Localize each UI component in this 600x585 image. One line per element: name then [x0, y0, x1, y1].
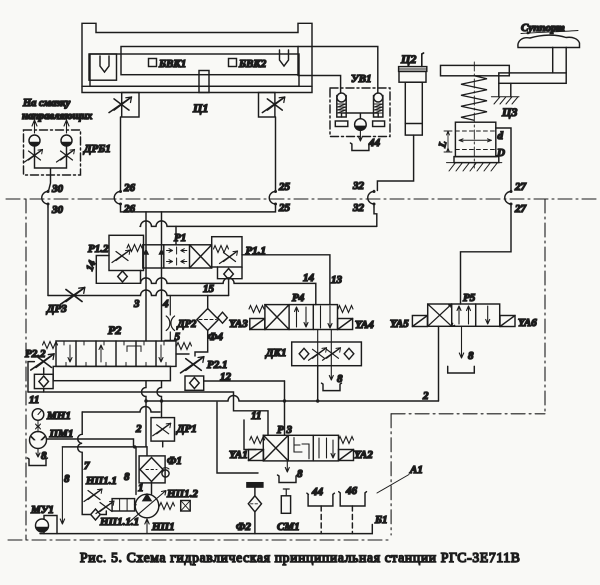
wire check to box: [100, 511, 106, 515]
svg-text:Р2: Р2: [108, 323, 121, 337]
P2 subplate: [53, 366, 170, 380]
P1.2 throttle: [112, 250, 130, 263]
P3 body: [263, 435, 338, 461]
СМ1 cap: [283, 489, 289, 496]
bottom plate: [454, 157, 499, 163]
Ф4 down wire: [195, 331, 208, 357]
НП1.2 spring: [160, 503, 175, 510]
svg-text:Б1: Б1: [374, 514, 388, 526]
P5 s1 X: [428, 304, 455, 326]
P4 body: [265, 305, 338, 330]
ДК1 right drain arrow: [329, 366, 333, 380]
P3 drain arrow: [285, 461, 289, 472]
throttle ДР3: [61, 287, 85, 304]
ДР1 bottom wire: [162, 441, 164, 447]
throttle right: [57, 150, 75, 163]
ДК1 box: [292, 342, 362, 366]
svg-text:2: 2: [135, 423, 142, 435]
P3 s1 X: [263, 435, 288, 461]
P5 solenoid YA5: [412, 316, 427, 327]
ДК1 left out to line2: [317, 366, 319, 401]
second throttle: [96, 501, 114, 514]
wire table to УВ1 right: [298, 47, 378, 94]
check diamond right of Ф4: [218, 312, 228, 323]
svg-text:Ф1: Ф1: [167, 455, 182, 467]
svg-text:Ц3: Ц3: [501, 105, 517, 119]
frame step horizontal: [391, 413, 545, 415]
P3 spring right: [339, 437, 354, 444]
P2 internal arrows: [68, 345, 163, 362]
svg-text:13: 13: [331, 274, 343, 286]
svg-text:32: 32: [352, 180, 365, 192]
node 26 hop: [114, 190, 122, 207]
frame step vertical: [390, 414, 392, 535]
svg-text:На смазку: На смазку: [22, 98, 71, 109]
ground under post: [491, 97, 519, 104]
piston Ц1: [199, 71, 209, 93]
arrow up right: [64, 120, 69, 133]
wire 30 down: [47, 207, 49, 296]
svg-text:11: 11: [251, 410, 261, 422]
P1.2 spring: [127, 245, 142, 252]
wire 26-25 connector: [121, 207, 276, 212]
P1.1 check diamond: [224, 269, 234, 280]
shuttle circle: [355, 119, 367, 131]
svg-text:Ф4: Ф4: [208, 331, 223, 343]
P4 s3 arrow: [321, 306, 333, 328]
ПМ1 drain arrow: [36, 449, 40, 458]
servo box: [112, 499, 135, 511]
НП1.1 throttle: [84, 489, 102, 502]
svg-text:МН1: МН1: [46, 410, 71, 422]
dropper symbol right: [61, 135, 72, 146]
junction dot: [133, 445, 136, 448]
ДРБ1 dash-dot box: [24, 130, 81, 175]
svg-text:YA4: YA4: [355, 319, 374, 331]
P3 dividers: [288, 435, 313, 461]
P4 spring right: [338, 306, 353, 313]
P1.2 loop box: [96, 256, 140, 284]
44 dashed drop: [320, 506, 322, 534]
manifold 4 down to P2: [161, 268, 163, 341]
port box right under table: [259, 93, 275, 118]
P2.2 check diamond: [39, 376, 49, 387]
P4 dividers: [289, 305, 313, 330]
svg-text:8: 8: [64, 473, 70, 485]
svg-text:YA2: YA2: [354, 449, 373, 461]
СМ1 body: [281, 496, 290, 514]
МУ1 box: [44, 516, 57, 534]
Ф1 feed from junction: [146, 447, 148, 456]
d arrows: [459, 139, 492, 142]
svg-text:ДР3: ДР3: [46, 303, 67, 315]
svg-text:46: 46: [345, 485, 358, 497]
frame top line: [6, 198, 596, 200]
svg-text:Р2.2: Р2.2: [25, 348, 46, 360]
46 bracket: [339, 492, 367, 506]
svg-text:НП1: НП1: [151, 521, 175, 533]
arrow up left: [32, 120, 37, 133]
node 30 hop: [42, 190, 50, 207]
drain 8 vertical: [60, 447, 64, 524]
svg-text:27: 27: [514, 181, 527, 193]
svg-text:ДК1: ДК1: [265, 347, 286, 359]
svg-text:СМ1: СМ1: [277, 521, 300, 533]
pilot wire: [135, 447, 137, 495]
P3 s2 pattern: [294, 438, 309, 459]
join wires: [35, 146, 67, 191]
svg-text:1: 1: [138, 482, 144, 494]
svg-text:БВК2: БВК2: [238, 58, 267, 70]
svg-text:11: 11: [29, 394, 39, 406]
pilot valve right: [374, 93, 383, 117]
А1 leader: [377, 475, 409, 494]
svg-text:8: 8: [297, 468, 303, 480]
wire table to УВ1 left: [298, 76, 341, 94]
P4 solenoid YA3: [250, 319, 265, 330]
P1 section dividers: [164, 245, 190, 268]
pointer left: [100, 56, 109, 72]
frame right edge: [544, 199, 546, 414]
frame bottom line: [8, 539, 391, 541]
svg-text:25: 25: [278, 181, 291, 193]
P2.1 check box: [185, 376, 204, 390]
svg-text:НП1.2: НП1.2: [166, 488, 198, 500]
support post: [499, 83, 511, 97]
dashed bore lines: [455, 131, 495, 150]
svg-text:ДР1: ДР1: [176, 423, 197, 435]
pressure line 2: [146, 396, 439, 401]
НП1.2 box: [181, 501, 191, 512]
wire 12 down to P3: [284, 381, 286, 435]
pilot valve left base: [335, 121, 348, 127]
ДР1 box: [151, 418, 175, 442]
P2.1 throttle: [181, 357, 204, 373]
P2.1 wires: [176, 354, 285, 381]
svg-text:27: 27: [514, 203, 527, 215]
svg-text:32: 32: [352, 202, 365, 214]
pump variable arrow: [129, 491, 166, 523]
svg-text:Р2.1: Р2.1: [207, 359, 227, 371]
svg-text:НП1.1: НП1.1: [85, 475, 117, 487]
cylinder block Ц3: [455, 122, 495, 156]
suction line: [40, 525, 372, 534]
sensor box left: [89, 54, 117, 80]
ДК1 right diamond: [344, 348, 354, 359]
drain T at P2 top: [165, 340, 176, 342]
УВ1 dash-dot box: [330, 88, 390, 137]
P1.2 box: [109, 235, 144, 270]
svg-text:YA5: YA5: [390, 318, 409, 330]
P1.2 check diamond: [118, 271, 128, 282]
svg-text:НП1.1.1: НП1.1.1: [99, 516, 139, 528]
svg-text:3: 3: [133, 298, 140, 310]
line 14 with bumps: [141, 278, 316, 305]
svg-text:2: 2: [422, 390, 429, 402]
P1.1 throttle: [220, 251, 238, 264]
cylinder Ц1 barrel: [90, 54, 299, 86]
svg-text:ДРБ1: ДРБ1: [83, 143, 111, 155]
svg-text:YA1: YA1: [229, 449, 248, 461]
support body: [518, 35, 580, 47]
gauge connector: [36, 420, 41, 432]
tank P5: [448, 366, 475, 373]
Ц2 wire down: [377, 135, 413, 190]
ДК1 throttle 1: [309, 348, 327, 361]
svg-text:YA3: YA3: [229, 318, 248, 330]
P3 left loop wire: [217, 402, 258, 473]
svg-text:44: 44: [368, 137, 381, 149]
tank under ДК1: [322, 383, 342, 391]
svg-text:А1: А1: [409, 464, 423, 476]
svg-text:44: 44: [311, 486, 324, 498]
svg-text:МУ1: МУ1: [30, 504, 54, 516]
tank 44: [350, 143, 370, 151]
Ф1 check ball: [162, 468, 169, 478]
port box left under table: [122, 93, 139, 118]
throttle left under table: [109, 97, 132, 113]
unload line to ДР1: [82, 407, 160, 412]
coupling 5: [166, 296, 174, 341]
P5 body: [428, 304, 500, 326]
МН1 gauge: [32, 409, 44, 421]
P2.2 throttle: [31, 354, 54, 370]
Ф4 filter diamond: [197, 309, 219, 331]
svg-text:8: 8: [337, 373, 343, 385]
support arm: [499, 73, 566, 83]
frame left edge: [25, 199, 27, 540]
P2 spring left: [43, 342, 58, 349]
tank P3: [278, 475, 298, 483]
svg-text:4: 4: [162, 298, 169, 310]
svg-text:7: 7: [84, 460, 90, 472]
wires P4 to ДК1: [318, 330, 332, 366]
P2 port ticks top: [61, 341, 167, 345]
ДК1 throttle 2: [323, 348, 341, 361]
Ф2 diamond: [248, 496, 261, 512]
БВК1 square: [149, 59, 157, 67]
P3 solenoid YA2: [339, 450, 354, 461]
bottom double line of table: [82, 85, 312, 87]
top plate: [441, 65, 510, 75]
wire Ц3 to 27: [496, 128, 511, 191]
Ц2 lever: [422, 53, 424, 67]
svg-text:Ц2: Ц2: [400, 52, 416, 66]
P3 solenoid YA1: [249, 450, 264, 461]
Ц2 head block: [399, 71, 426, 82]
L dimension: [444, 131, 452, 152]
wire 3 drop to P1: [145, 212, 147, 245]
P2 dividers: [76, 341, 156, 366]
P4 s2 arrows: [295, 307, 309, 327]
loop down to check: [82, 495, 91, 515]
throttle right under table: [262, 97, 285, 113]
svg-text:30: 30: [51, 183, 64, 195]
P2 port ticks bottom: [63, 362, 169, 366]
line 32->P1 horizontal with bumps: [140, 221, 377, 227]
УВ1 drain arrow: [358, 131, 362, 142]
P1 s1 pass lines: [144, 245, 164, 268]
svg-text:d: d: [498, 130, 504, 142]
pilot valve left: [337, 93, 346, 117]
ПМ1 circle: [30, 432, 47, 449]
ДР1 throttle: [153, 423, 171, 436]
pilot valve right base: [373, 121, 385, 127]
svg-text:25: 25: [278, 202, 291, 214]
ground hatch bottom: [447, 163, 502, 171]
pointer right: [280, 50, 289, 66]
manifold drops below P2: [142, 381, 162, 447]
wire 25 down from table: [275, 117, 277, 191]
svg-text:26: 26: [123, 182, 136, 194]
МУ1 circle: [36, 519, 49, 532]
НП1.1.1 check diamond: [91, 509, 101, 520]
wire 26 down from table: [120, 117, 122, 191]
left loop vertical: [78, 412, 83, 495]
wire 32 to P1 line: [374, 207, 377, 226]
P3 spring left: [250, 437, 265, 444]
svg-text:8: 8: [124, 471, 130, 483]
svg-text:БВК1: БВК1: [158, 58, 186, 70]
P5 dividers: [452, 304, 476, 326]
ДК1 left diamond: [299, 348, 309, 359]
P5 drain arrow: [459, 326, 463, 358]
svg-text:12: 12: [220, 371, 232, 383]
P5 s3 arrow: [486, 306, 490, 324]
P1.1 spring: [214, 246, 229, 253]
dropper symbol left: [29, 135, 40, 146]
P4 solenoid YA4: [338, 319, 353, 330]
P3 s3 pattern: [319, 438, 335, 458]
spring Ц3: [461, 76, 487, 121]
P1 s3 X: [190, 245, 212, 268]
P5 solenoid YA6: [500, 316, 515, 327]
ПМ1 wire right with bump: [47, 439, 134, 447]
Ф2 breather cap: [247, 483, 263, 487]
junction dots line2: [283, 399, 286, 402]
Ц2 top cap: [399, 67, 427, 72]
center line dash: [473, 62, 475, 168]
svg-text:Ц1: Ц1: [192, 101, 208, 115]
wire box to pump: [135, 504, 136, 506]
node 32 hop: [368, 190, 376, 207]
P1.1 loop box: [218, 267, 243, 279]
svg-text:Р1: Р1: [174, 232, 186, 244]
pump suction arrow: [145, 519, 149, 534]
P1.1 check drop: [228, 280, 230, 296]
svg-text:ПМ1: ПМ1: [49, 428, 74, 440]
svg-text:Ф2: Ф2: [236, 521, 251, 533]
svg-text:26: 26: [123, 203, 136, 215]
svg-text:L: L: [437, 140, 449, 150]
P4 spring left: [249, 306, 264, 313]
Ф1 to pump wire: [151, 482, 153, 495]
pump НП1 circle: [135, 494, 159, 518]
46 dashed drop: [351, 506, 353, 534]
Ф4 feed drop: [207, 296, 209, 310]
svg-text:8: 8: [468, 350, 474, 362]
P5 s2 arrows: [457, 306, 471, 324]
svg-text:Рис. 5. Схема гидравлическая п: Рис. 5. Схема гидравлическая принципиаль…: [80, 550, 521, 565]
line 13: [242, 255, 330, 305]
svg-text:YA6: YA6: [518, 317, 537, 329]
svg-text:ДР2: ДР2: [177, 319, 198, 330]
svg-text:15: 15: [203, 283, 215, 295]
table body: [82, 23, 312, 92]
wire 4 drop to P1: [161, 212, 163, 245]
second wire with bump: [62, 446, 147, 448]
Ц2 piston line: [405, 123, 422, 125]
wire 2 P5 drop: [438, 326, 440, 401]
P1.1 box: [212, 237, 242, 267]
tank ПМ1: [28, 458, 48, 466]
svg-text:14: 14: [303, 272, 315, 284]
svg-text:направляющих: направляющих: [22, 111, 92, 122]
P4 s1 X: [265, 305, 289, 330]
P2 body: [56, 341, 176, 366]
P2.1 check diamond: [190, 378, 200, 389]
P1 center feed drop: [175, 226, 177, 244]
svg-text:Р 3: Р 3: [277, 424, 292, 436]
line 11 from P2.2 with bumps: [28, 392, 268, 435]
Ф2 stem: [254, 487, 256, 533]
svg-text:Р1.2: Р1.2: [88, 243, 109, 255]
P1 body: [143, 245, 212, 268]
svg-text:30: 30: [51, 204, 64, 216]
lube line y295 with bumps: [48, 290, 229, 295]
БВК2 square: [229, 59, 237, 67]
P2 spring right: [177, 343, 192, 350]
manifold 3 down to P2: [145, 268, 147, 341]
svg-text:УВ1: УВ1: [351, 73, 372, 85]
УВ1 internal wires: [342, 113, 379, 119]
node 25 hop: [269, 190, 277, 207]
svg-text:Р4: Р4: [292, 292, 305, 304]
Ф1 diamond: [140, 458, 163, 482]
Ф1 box: [139, 456, 165, 483]
support column: [553, 47, 567, 73]
svg-text:Р5: Р5: [463, 292, 476, 304]
Суппорт underline: [521, 31, 578, 34]
node 27 hop: [505, 190, 513, 207]
P2.2 check box: [34, 374, 53, 388]
P2.2 wires: [28, 362, 44, 392]
44 bracket: [307, 493, 335, 506]
throttle left: [25, 150, 43, 163]
inner rect with БВК: [121, 47, 298, 75]
Ц2 barrel: [405, 82, 422, 135]
wire 27 down to P5: [461, 207, 512, 304]
P1 s2 check arrows: [167, 247, 187, 265]
